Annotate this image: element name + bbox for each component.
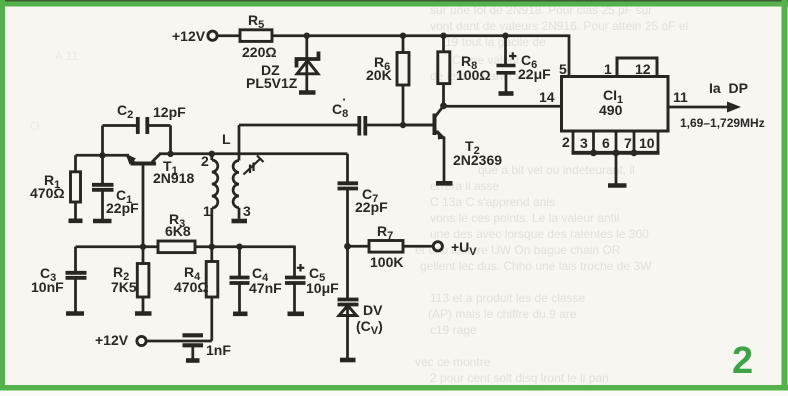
svg-text:6K8: 6K8 bbox=[165, 223, 191, 239]
svg-text:12pF: 12pF bbox=[153, 104, 186, 120]
svg-text:3: 3 bbox=[580, 135, 588, 151]
wire terminal to R5 bbox=[218, 34, 241, 37]
svg-text:C 13a C s'apprend anis: C 13a C s'apprend anis bbox=[430, 195, 555, 209]
resistor R6 bbox=[397, 36, 409, 125]
svg-text:19 tout la gacile de: 19 tout la gacile de bbox=[445, 35, 546, 49]
svg-text:PL5V1Z: PL5V1Z bbox=[246, 75, 298, 91]
ground below DZ bbox=[299, 90, 316, 95]
svg-text:1: 1 bbox=[604, 61, 612, 77]
svg-text:(AP) mais le chiffre du 9 are: (AP) mais le chiffre du 9 are bbox=[428, 307, 577, 321]
transistor T1 2N918 bbox=[126, 154, 161, 247]
ground below 1nF bbox=[186, 358, 200, 363]
svg-text:6: 6 bbox=[602, 135, 610, 151]
svg-text:O: O bbox=[30, 119, 39, 133]
svg-text:10nF: 10nF bbox=[31, 279, 64, 295]
svg-text:2N918: 2N918 bbox=[153, 170, 194, 186]
ground below CI1 bbox=[608, 183, 627, 188]
wire +12V bottom to R4 bbox=[147, 340, 212, 343]
svg-text:1,69–1,729MHz: 1,69–1,729MHz bbox=[680, 116, 765, 130]
terminal +12V top bbox=[208, 31, 217, 40]
op-amp U1 IC CI1 490 body bbox=[562, 77, 669, 132]
svg-text:A 11: A 11 bbox=[55, 49, 78, 63]
resistor R4 bbox=[206, 247, 218, 341]
svg-text:10: 10 bbox=[639, 135, 655, 151]
node junction R8 top bbox=[440, 33, 446, 39]
svg-text:vec ce montre: vec ce montre bbox=[415, 355, 491, 369]
pin 11 output wire with arrow bbox=[668, 102, 741, 113]
svg-text:113 et a produit les de classe: 113 et a produit les de classe bbox=[430, 291, 586, 305]
svg-text:L: L bbox=[222, 131, 231, 147]
node T2 base junction R6 bbox=[400, 122, 406, 128]
svg-text:20K: 20K bbox=[366, 67, 392, 83]
svg-text:14: 14 bbox=[539, 89, 555, 105]
wire bottom rail bbox=[76, 245, 295, 248]
ground below T2 emitter bbox=[436, 181, 453, 186]
svg-text:2: 2 bbox=[562, 134, 570, 150]
node junction DZ top bbox=[304, 33, 310, 39]
resistor R8 bbox=[438, 36, 450, 106]
svg-text:DV: DV bbox=[363, 302, 383, 318]
svg-text:1: 1 bbox=[203, 203, 211, 219]
ground below R2 bbox=[135, 311, 152, 316]
ground below L pin3 bbox=[232, 219, 248, 224]
svg-text:2: 2 bbox=[201, 153, 209, 169]
svg-text:3: 3 bbox=[243, 203, 251, 219]
svg-text:47nF: 47nF bbox=[249, 280, 282, 296]
varicap diode DV bbox=[338, 246, 359, 358]
node T2 collector junction bbox=[440, 102, 447, 109]
node C1/C2 junction bbox=[99, 152, 105, 158]
inductor L winding 2-1 bbox=[212, 154, 218, 247]
svg-text:470Ω: 470Ω bbox=[30, 185, 65, 201]
pin 1-12 link bracket on top of CI1 bbox=[617, 58, 657, 77]
capacitor C3 bbox=[66, 247, 87, 312]
node junction R6 top bbox=[400, 33, 406, 39]
capacitor C7 bbox=[338, 154, 359, 247]
resistor R7 bbox=[348, 241, 434, 253]
svg-text:100K: 100K bbox=[370, 254, 403, 270]
capacitor C1 bbox=[92, 155, 114, 219]
wire collector net main bbox=[159, 152, 348, 155]
svg-text:2N2369: 2N2369 bbox=[453, 152, 502, 168]
ground below C1 bbox=[93, 219, 112, 224]
terminal +Uv bbox=[433, 242, 442, 251]
svg-text:+12V: +12V bbox=[172, 28, 206, 44]
svg-text:220Ω: 220Ω bbox=[242, 44, 277, 60]
ground below DV bbox=[340, 358, 356, 363]
CI1 bottom pin comb 2 3 6 7 10 bbox=[572, 131, 660, 184]
ground below C5 bbox=[288, 311, 305, 316]
svg-text:vont dant de valeurs 2N916. Po: vont dant de valeurs 2N916. Pour attein … bbox=[430, 19, 688, 33]
node C4 junction bbox=[236, 244, 242, 250]
svg-text:5: 5 bbox=[559, 61, 567, 77]
capacitor C6 electrolytic bbox=[497, 36, 517, 92]
capacitor C4 bbox=[230, 247, 250, 312]
wire top rail R5 to IC pin5 corner bbox=[272, 36, 569, 77]
svg-text:7K5: 7K5 bbox=[111, 279, 137, 295]
ground below C3 bbox=[66, 311, 84, 316]
svg-text:1nF: 1nF bbox=[206, 342, 231, 358]
svg-text:vons le ces points. Le la vale: vons le ces points. Le la valeur antil bbox=[430, 211, 619, 225]
svg-text:2: 2 bbox=[732, 340, 753, 382]
resistor R3 bbox=[158, 241, 195, 253]
svg-text:490: 490 bbox=[599, 102, 623, 118]
zener diode DZ PL5V1Z bbox=[297, 36, 319, 91]
node C7 / R7 / DV junction bbox=[344, 243, 351, 250]
capacitor C2 bbox=[103, 117, 171, 155]
pin 14 wire from T2 collector to CI1 bbox=[444, 105, 562, 108]
resistor R5 bbox=[240, 30, 272, 42]
resistor R2 bbox=[137, 247, 149, 312]
terminal +12V bottom bbox=[137, 336, 146, 345]
svg-text:22pF: 22pF bbox=[106, 200, 139, 216]
ground below C4 bbox=[233, 311, 248, 316]
inductor L winding trimmer side bbox=[233, 125, 239, 219]
svg-text:22pF: 22pF bbox=[355, 199, 388, 215]
node T1 base / R2 junction bbox=[140, 244, 146, 250]
ground below C6 bbox=[499, 91, 514, 96]
capacitor 1nF feedthrough bbox=[183, 335, 204, 358]
node L pin1 / R4 junction bbox=[209, 244, 215, 250]
svg-text:10μF: 10μF bbox=[306, 280, 339, 296]
schematic ink bbox=[66, 30, 742, 361]
node L pin2 junction bbox=[209, 151, 215, 157]
svg-text:7: 7 bbox=[624, 135, 632, 151]
svg-text:2 pour cent solt disq lront le: 2 pour cent solt disq lront le li pari bbox=[430, 371, 609, 385]
svg-text:12: 12 bbox=[635, 61, 651, 77]
node junction C6 top bbox=[502, 33, 508, 39]
capacitor C5 electrolytic bbox=[285, 246, 306, 312]
resistor R1 bbox=[71, 155, 81, 219]
svg-text:et une lecture UW On bague cha: et une lecture UW On bague chain OR bbox=[415, 243, 621, 257]
wire T1 emitter net bbox=[76, 154, 130, 157]
svg-text:470Ω: 470Ω bbox=[174, 279, 209, 295]
svg-text:11: 11 bbox=[673, 89, 688, 105]
svg-text:Ia DP: Ia DP bbox=[709, 80, 748, 96]
svg-text:100Ω: 100Ω bbox=[456, 67, 491, 83]
svg-text:22μF: 22μF bbox=[518, 66, 551, 82]
svg-text:c19 rage: c19 rage bbox=[430, 323, 477, 337]
svg-text:+12V: +12V bbox=[95, 332, 129, 348]
transistor T2 2N2369 bbox=[403, 106, 446, 181]
ground below R1 bbox=[69, 219, 83, 224]
capacitor C8 bbox=[239, 116, 433, 136]
svg-text:gellent lec dus. Chho une lais: gellent lec dus. Chho une lais troche de… bbox=[420, 259, 652, 273]
trimmer arrow on L bbox=[244, 156, 264, 175]
node C2 right junction bbox=[167, 151, 173, 157]
